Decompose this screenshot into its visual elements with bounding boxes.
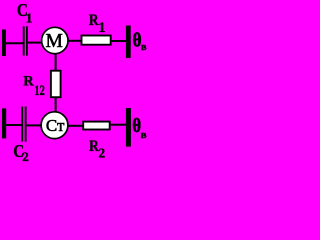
resistor R2 [83, 122, 110, 130]
motor circle M [42, 27, 68, 53]
terminal bar bottom-right [126, 108, 131, 147]
capacitor C1 plate left [23, 26, 25, 55]
wire [68, 125, 83, 127]
resistor R1 [82, 36, 111, 45]
svg-text:в: в [141, 42, 147, 53]
wire [27, 124, 42, 126]
wire [112, 40, 126, 42]
svg-text:1: 1 [26, 11, 33, 26]
svg-text:в: в [141, 129, 147, 141]
terminal bar top-right [126, 26, 131, 59]
terminal bar top-left [2, 30, 6, 57]
svg-text:M: M [46, 31, 63, 52]
wire from R12 down [55, 98, 57, 112]
capacitor C1 plate right [26, 26, 28, 55]
svg-text:R: R [23, 74, 34, 90]
stabilizer circle Ct [41, 112, 68, 139]
svg-text:2: 2 [22, 149, 29, 164]
wire [111, 124, 126, 126]
wire [28, 42, 43, 44]
svg-text:Ст: Ст [46, 116, 65, 135]
capacitor C2 plate left [21, 107, 23, 142]
svg-text:1: 1 [98, 20, 106, 36]
resistor R12 [51, 71, 61, 98]
capacitor C2 plate right [25, 107, 27, 142]
wire from M down [55, 54, 57, 71]
terminal bar bottom-left [2, 108, 6, 138]
svg-text:2: 2 [98, 146, 105, 161]
wire [6, 124, 22, 126]
wire [68, 40, 81, 42]
wire [6, 42, 24, 44]
svg-text:12: 12 [34, 83, 45, 99]
